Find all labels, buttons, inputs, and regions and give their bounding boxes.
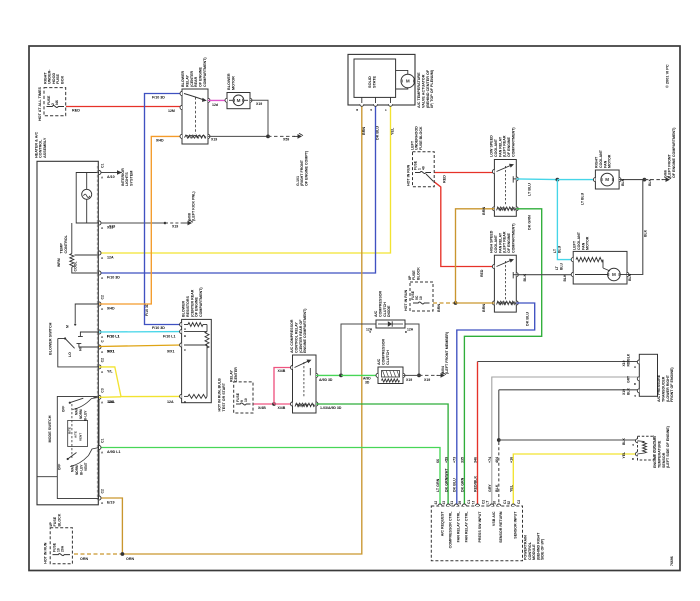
svg-text:COOLANT: COOLANT [494,138,498,157]
svg-text:I/P, TOP OF PLENUM): I/P, TOP OF PLENUM) [430,69,434,108]
svg-text:A/9D L1: A/9D L1 [107,450,121,454]
svg-text:RED/BLK: RED/BLK [474,476,478,492]
svg-text:OF ENGINE: OF ENGINE [195,296,199,317]
svg-text:BOX: BOX [60,75,64,84]
svg-text:M: M [406,79,410,84]
svg-text:X19: X19 [211,138,217,142]
svg-text:FAN: FAN [581,242,585,250]
svg-text:COOLANT: COOLANT [494,234,498,253]
svg-text:C1: C1 [101,438,105,443]
svg-text:HOT AT ALL TIMES: HOT AT ALL TIMES [38,86,42,121]
svg-text:C2: C2 [517,500,521,504]
svg-text:BLK: BLK [523,274,527,282]
svg-text:52: 52 [507,501,511,505]
svg-text:20A: 20A [61,545,65,552]
svg-text:COOLANT: COOLANT [577,231,581,250]
svg-text:HI: HI [79,347,83,351]
svg-text:BLK: BLK [644,229,648,237]
svg-text:+74: +74 [488,457,492,463]
svg-text:H: H [355,109,359,111]
svg-text:12A: 12A [107,256,114,260]
svg-text:OFF: OFF [58,464,62,470]
svg-text:YEL: YEL [622,452,626,459]
svg-text:A/TE: A/TE [74,431,78,438]
svg-text:DK GRN/WHT: DK GRN/WHT [445,468,449,492]
svg-text:X19: X19 [424,378,430,382]
svg-text:BI-LEV: BI-LEV [84,410,88,421]
svg-text:7J: 7J [471,501,475,505]
svg-text:SYSTEM: SYSTEM [129,171,133,186]
svg-text:BLK: BLK [648,178,652,186]
svg-text:DIODE: DIODE [387,305,391,317]
svg-text:FAN RELAY CTRL: FAN RELAY CTRL [465,511,469,543]
svg-text:76696: 76696 [670,556,674,566]
svg-text:BLOCK: BLOCK [416,267,420,280]
svg-text:MOTOR: MOTOR [608,154,612,168]
svg-text:RELAY: RELAY [230,369,234,382]
svg-text:HOT IN RUN, BULB: HOT IN RUN, BULB [218,378,222,412]
svg-text:LO: LO [68,352,72,357]
svg-text:FAN RELAY: FAN RELAY [498,232,502,253]
svg-text:BLK: BLK [563,274,567,281]
svg-text:(BEHIND CENTER OF: (BEHIND CENTER OF [426,69,430,108]
svg-text:X/4B: X/4B [278,406,286,410]
svg-text:X59: X59 [283,138,289,142]
svg-text:ORN: ORN [126,557,134,561]
svg-text:HOT IN RUN: HOT IN RUN [404,289,408,311]
svg-text:© 2001 VI PC: © 2001 VI PC [666,64,670,88]
svg-text:M: M [66,325,70,328]
svg-text:BLOWER: BLOWER [227,73,231,90]
svg-text:A/C PRESSURE: A/C PRESSURE [657,374,661,402]
svg-text:SENSOR: SENSOR [662,452,666,468]
svg-text:26: 26 [493,501,497,505]
svg-text:C1: C1 [503,500,507,504]
svg-text:M: M [612,272,616,277]
svg-text:335: 335 [461,457,465,463]
svg-text:RED: RED [480,269,484,277]
svg-text:(LEFT REAR: (LEFT REAR [503,231,507,253]
svg-text:CONTROL: CONTROL [64,234,68,253]
svg-text:A/C TEMPERATURE: A/C TEMPERATURE [417,72,421,108]
svg-text:(LEFT SIDE OF ENGINE): (LEFT SIDE OF ENGINE) [666,425,670,468]
svg-text:12d: 12d [212,103,218,107]
svg-text:12M: 12M [168,109,175,113]
svg-text:SENSOR INPUT: SENSOR INPUT [514,511,518,539]
svg-text:42: 42 [434,501,438,505]
svg-text:T: T [384,109,388,111]
svg-text:C2: C2 [101,489,105,494]
svg-text:BRN: BRN [482,304,486,312]
svg-text:9/X1: 9/X1 [107,350,114,354]
svg-text:MAX: MAX [75,407,79,415]
svg-text:C1: C1 [101,163,105,168]
svg-text:HIGH SPEED: HIGH SPEED [490,230,494,253]
svg-text:BLK: BLK [495,484,499,492]
svg-text:MOTOR: MOTOR [231,76,235,90]
svg-text:D: D [184,400,186,404]
svg-text:X19: X19 [256,102,262,106]
svg-text:MOTOR: MOTOR [586,236,590,250]
svg-text:BLK: BLK [622,438,626,445]
svg-text:COMPARTMENT): COMPARTMENT) [199,287,203,317]
svg-text:+73: +73 [453,457,457,463]
svg-text:C2: C2 [101,295,105,300]
svg-text:YEL: YEL [510,484,514,492]
svg-text:CONTROL RELAY: CONTROL RELAY [294,322,298,353]
svg-text:NORM: NORM [75,465,79,475]
svg-text:M: M [237,98,241,103]
svg-text:12A: 12A [108,400,115,404]
svg-text:FAN RELAY CTRL: FAN RELAY CTRL [457,511,461,543]
svg-text:RELAY: RELAY [185,74,189,87]
svg-text:OFF: OFF [62,406,66,412]
svg-text:10: 10 [244,398,248,402]
svg-text:LT BLU: LT BLU [581,192,585,205]
svg-text:DK BLU: DK BLU [526,312,530,326]
svg-text:(LEFT KICK PNL): (LEFT KICK PNL) [192,191,196,221]
svg-text:COMPARTMENT): COMPARTMENT) [512,223,516,253]
svg-text:BI-LEV: BI-LEV [80,464,84,475]
svg-text:REAR: REAR [194,76,198,87]
svg-text:43: 43 [442,501,446,505]
svg-text:BLK: BLK [621,178,625,186]
svg-text:A/C: A/C [374,310,378,317]
svg-text:OF ENGINE COMPARTMENT): OF ENGINE COMPARTMENT) [672,127,676,178]
svg-text:PRESS SW INPUT: PRESS SW INPUT [478,511,482,543]
svg-text:DK GRN: DK GRN [528,215,532,230]
svg-text:X19: X19 [109,225,115,229]
svg-text:346: 346 [474,457,478,463]
svg-text:COMPARTMENT): COMPARTMENT) [512,127,516,157]
svg-text:LEFT: LEFT [573,240,577,250]
svg-text:ASSEMBLY: ASSEMBLY [43,137,47,158]
svg-text:Y/L: Y/L [107,369,113,373]
svg-text:DK BLU: DK BLU [376,126,380,140]
svg-text:(CENTER: (CENTER [190,71,194,87]
svg-text:BLOCK: BLOCK [57,513,61,526]
svg-text:A/10: A/10 [107,175,115,179]
svg-text:29: 29 [458,501,462,505]
svg-text:STATE: STATE [373,75,377,88]
svg-text:12A: 12A [167,400,174,404]
svg-text:FAN RELAY: FAN RELAY [498,136,502,157]
svg-text:BRN: BRN [437,304,441,312]
svg-text:+16: +16 [510,457,514,463]
svg-text:HOT IN RUN: HOT IN RUN [44,542,48,564]
svg-text:12A: 12A [407,328,414,332]
svg-text:COMPARTMENT): COMPARTMENT) [203,57,207,87]
svg-text:A/C COMPRESSOR: A/C COMPRESSOR [290,319,294,353]
svg-text:OF ENGINE: OF ENGINE [199,66,203,87]
svg-text:TRANSDUCER: TRANSDUCER [661,376,665,402]
svg-text:F/10 3D: F/10 3D [107,276,120,280]
svg-text:FAN: FAN [603,160,607,168]
svg-text:RED: RED [443,175,447,183]
svg-text:BRN: BRN [482,207,486,215]
svg-text:C2: C2 [101,358,105,363]
svg-text:CLUTCH: CLUTCH [386,350,390,365]
svg-text:66: 66 [436,459,440,463]
svg-text:X/4B: X/4B [278,369,286,373]
svg-text:BLK: BLK [628,273,632,281]
svg-text:FUSE BLOCK: FUSE BLOCK [419,126,423,150]
svg-text:(LEFT REAR: (LEFT REAR [503,135,507,157]
svg-text:DK GRN: DK GRN [461,477,465,492]
svg-text:A/C REQUEST: A/C REQUEST [440,511,444,537]
svg-text:3D: 3D [365,381,370,385]
svg-text:HOT IN RUN: HOT IN RUN [407,164,411,186]
svg-text:FRONT OF ENGINE): FRONT OF ENGINE) [670,367,674,402]
svg-text:9/X1: 9/X1 [167,350,174,354]
svg-text:COOLANT: COOLANT [599,149,603,168]
svg-text:BRN: BRN [362,127,366,135]
svg-text:VALVE ACTUATOR: VALVE ACTUATOR [421,74,425,108]
svg-text:GRY: GRY [626,375,630,383]
svg-text:E/19: E/19 [107,501,114,505]
svg-text:41: 41 [450,501,454,505]
svg-text:F/10 L1: F/10 L1 [107,335,120,339]
svg-text:C2: C2 [482,500,486,504]
svg-text:OF ENGINE COMPT): OF ENGINE COMPT) [304,150,308,186]
svg-text:VENT: VENT [84,463,88,471]
svg-text:SOLID: SOLID [368,76,372,88]
svg-text:DK BLU: DK BLU [453,478,457,492]
svg-text:VENT: VENT [79,433,83,441]
svg-text:C1: C1 [467,500,471,504]
svg-text:RD/BLK: RD/BLK [626,353,630,366]
svg-text:LT: LT [486,501,490,505]
svg-text:LOW SPEED: LOW SPEED [490,135,494,157]
svg-text:CENTER: CENTER [234,367,238,382]
svg-text:9/4D: 9/4D [107,307,115,311]
svg-text:ENGINE COMPARTMENT): ENGINE COMPARTMENT) [303,308,307,353]
svg-text:COMPRESSOR CTRL: COMPRESSOR CTRL [449,511,453,549]
svg-text:BLOWER: BLOWER [182,301,186,317]
svg-text:A/C: A/C [377,358,381,365]
svg-text:VSB A/C: VSB A/C [492,511,496,526]
svg-text:YEL: YEL [391,127,395,135]
svg-text:LT GRN: LT GRN [436,478,440,492]
svg-text:F/10 3D: F/10 3D [152,96,165,100]
svg-text:F/10 3D: F/10 3D [152,326,165,330]
svg-text:(LEFT FRONT MEMBER): (LEFT FRONT MEMBER) [445,331,449,374]
svg-text:(CENTER REAR: (CENTER REAR [190,289,194,317]
svg-text:(CENTER REAR OF: (CENTER REAR OF [299,319,303,353]
svg-text:LT BLU: LT BLU [528,183,532,196]
svg-text:C3: C3 [101,388,105,393]
svg-text:OF ENGINE: OF ENGINE [507,232,511,253]
svg-text:BLK: BLK [626,388,630,395]
svg-text:F/10 3D: F/10 3D [145,303,149,316]
svg-text:RED: RED [72,109,80,113]
svg-text:B: B [184,334,186,338]
svg-text:NORM: NORM [79,409,83,419]
svg-text:B/TE: B/TE [68,427,72,434]
svg-text:GRY: GRY [488,484,492,492]
svg-text:SIDE OF I/P): SIDE OF I/P) [541,538,545,560]
svg-text:ENGINE COOLANT: ENGINE COOLANT [653,434,657,468]
svg-text:A/9D 3D: A/9D 3D [319,378,333,382]
svg-text:WRM: WRM [57,258,61,267]
svg-text:40: 40 [422,166,426,170]
svg-text:RIGHT: RIGHT [595,156,599,168]
svg-text:ORN: ORN [80,557,88,561]
svg-text:COMPRESSOR: COMPRESSOR [381,338,385,365]
svg-text:X19: X19 [406,378,412,382]
svg-text:X/4B: X/4B [258,406,266,410]
svg-text:1-03/A/9D 3D: 1-03/A/9D 3D [320,406,342,410]
svg-text:MAX: MAX [71,464,75,472]
svg-text:I46: I46 [55,100,59,105]
svg-text:COMPRESSOR: COMPRESSOR [378,290,382,317]
svg-text:464: 464 [495,457,499,463]
svg-text:10: 10 [419,296,423,300]
svg-text:BLU: BLU [560,263,564,270]
svg-text:CLUTCH: CLUTCH [383,302,387,317]
svg-text:BLOWER: BLOWER [181,71,185,87]
svg-text:BLU: BLU [557,245,561,253]
svg-text:RESISTORS: RESISTORS [186,296,190,317]
svg-text:9/4D: 9/4D [156,139,164,143]
svg-text:MODE SWITCH: MODE SWITCH [48,415,52,442]
svg-text:+59: +59 [445,457,449,463]
svg-text:TEST OR START: TEST OR START [222,382,226,411]
svg-text:OF ENGINE: OF ENGINE [507,136,511,157]
svg-text:M: M [605,177,609,182]
svg-text:F/10 L1: F/10 L1 [163,335,176,339]
svg-text:(LOWER RIGHT: (LOWER RIGHT [666,374,670,402]
svg-text:SENSOR RETURN: SENSOR RETURN [499,511,503,543]
svg-text:BLOWER SWITCH: BLOWER SWITCH [49,322,53,355]
svg-text:COOL: COOL [74,261,78,272]
svg-text:X19: X19 [172,225,178,229]
svg-text:TEMPERATURE: TEMPERATURE [657,440,661,468]
